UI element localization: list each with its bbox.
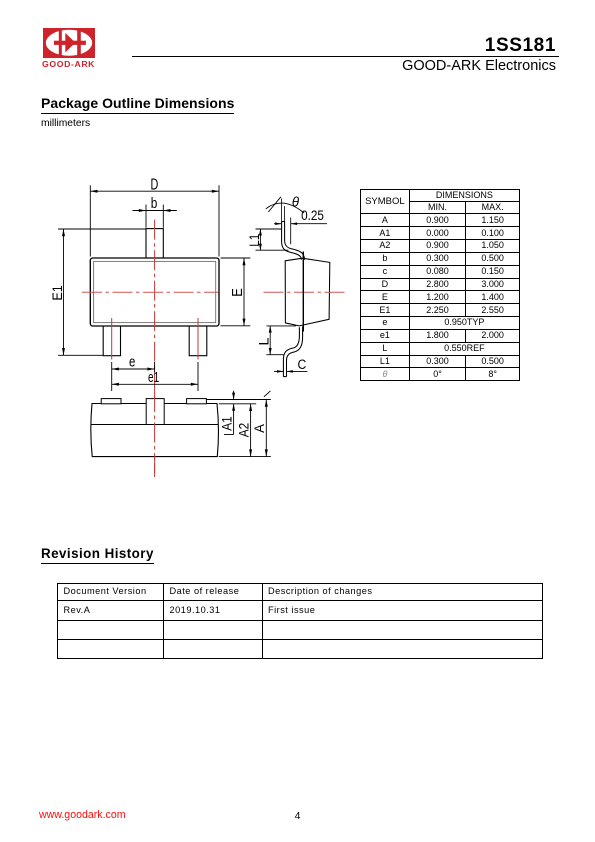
svg-text:C: C <box>298 357 307 372</box>
svg-text:e: e <box>129 354 135 370</box>
svg-text:E1: E1 <box>49 285 65 301</box>
side view bottom lead <box>283 327 302 377</box>
front view bottom-left lead <box>103 326 120 356</box>
bottom view tab middle <box>146 399 164 425</box>
bottom view tab left <box>101 399 121 404</box>
svg-text:A2: A2 <box>237 423 252 438</box>
svg-text:θ: θ <box>292 194 300 210</box>
angle theta leader arc <box>266 203 304 213</box>
side view top lead <box>282 222 305 260</box>
front view package body <box>90 258 219 326</box>
bottom view tab right <box>187 399 207 404</box>
bottom view parting line <box>91 424 219 426</box>
side view body <box>285 258 330 326</box>
footer site url <box>39 810 126 820</box>
right lead centerline <box>197 318 199 360</box>
side view lead section line <box>302 252 304 332</box>
dimension A <box>219 391 271 457</box>
dimension A2 <box>249 404 252 457</box>
svg-text:D: D <box>151 176 159 193</box>
front view horizontal centerline <box>82 291 219 293</box>
svg-text:L1: L1 <box>247 234 262 247</box>
gauge offset 0.25 <box>274 218 327 245</box>
dimension C <box>274 370 307 373</box>
dimension e <box>112 362 155 391</box>
bottom view body <box>91 404 219 457</box>
dimension D <box>90 185 219 256</box>
front view bottom-right lead <box>189 326 207 356</box>
revision history table <box>57 583 543 659</box>
left lead centerline <box>111 318 113 360</box>
dimensions table <box>360 189 520 382</box>
side view horizontal centerline <box>264 291 346 293</box>
millimeters note <box>41 118 90 129</box>
svg-text:e1: e1 <box>148 370 159 386</box>
dimension A1 <box>207 391 271 435</box>
dimension L <box>266 326 296 355</box>
header rule <box>132 56 559 58</box>
angle theta tangent line <box>268 197 281 212</box>
dimension E1 <box>58 229 146 355</box>
svg-text:E: E <box>230 288 246 297</box>
dimension b <box>133 205 177 228</box>
dimension e1 <box>112 362 198 391</box>
svg-text:0.25: 0.25 <box>301 208 324 223</box>
dimension L1 <box>256 229 289 250</box>
svg-text:A1: A1 <box>219 416 234 431</box>
lead tip extension lines <box>282 199 285 222</box>
svg-text:b: b <box>151 195 158 212</box>
logo GOOD-ARK <box>41 26 101 74</box>
svg-text:L: L <box>256 337 271 346</box>
GOOD-ARK Electronics <box>356 59 556 74</box>
front view top lead <box>146 229 163 259</box>
footer page number <box>278 811 318 821</box>
section heading Package Outline Dimensions <box>41 96 234 114</box>
main vertical centerline <box>154 220 156 477</box>
section heading Revision History <box>41 546 154 564</box>
dimension E <box>221 258 251 326</box>
bottom view centerline <box>154 392 156 477</box>
svg-text:A: A <box>252 424 267 433</box>
part number 1SS181 <box>356 36 556 55</box>
